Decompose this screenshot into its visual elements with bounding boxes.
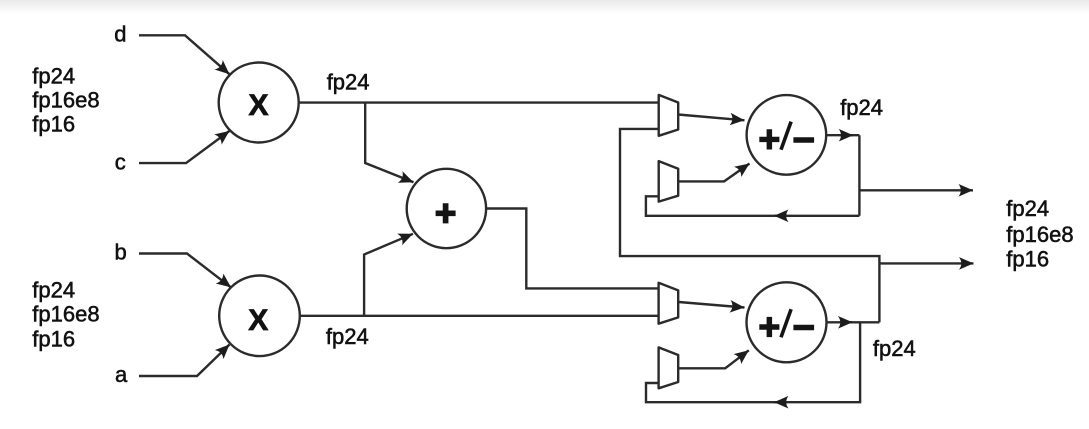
wire mux C output to addsub2: [679, 302, 745, 308]
wire output1 arrow: [859, 189, 973, 191]
svg-text:b: b: [115, 240, 127, 265]
wire input c: [139, 131, 230, 163]
wire feedback addsub1 to mux B: [646, 196, 860, 216]
svg-text:fp24: fp24: [326, 324, 369, 349]
wire addsub2 output: [827, 321, 880, 323]
svg-text:fp24: fp24: [32, 277, 75, 302]
wire input d: [139, 35, 230, 74]
svg-text:X: X: [248, 89, 268, 122]
addsub1 plus/minus symbol: [759, 129, 779, 149]
wire addsub2 result up to mux A second input: [620, 129, 879, 322]
multiplier M1 circle: [219, 63, 299, 143]
svg-text:fp24: fp24: [840, 95, 883, 120]
svg-text:fp16: fp16: [32, 327, 75, 352]
wire addsub1 output bus down: [858, 135, 860, 216]
wire multiplier1 output to mux A: [299, 101, 659, 103]
arrowhead feedback1 left: [774, 215, 788, 217]
svg-text:c: c: [115, 149, 126, 174]
svg-text:fp16: fp16: [32, 112, 75, 137]
mux A: [659, 95, 679, 136]
wire output2 fp16 arrow: [879, 262, 973, 264]
svg-text:fp16e8: fp16e8: [32, 301, 99, 326]
addsub2 plus/minus symbol: [759, 317, 779, 337]
wire mux B output to addsub1: [678, 164, 749, 182]
wire input b: [139, 254, 231, 288]
addsub2 circle: [747, 282, 827, 362]
addsub1 circle: [747, 95, 827, 175]
adder circle: [407, 169, 486, 248]
mux D: [659, 347, 679, 388]
svg-text:fp16: fp16: [1006, 247, 1049, 272]
svg-text:fp24: fp24: [1006, 196, 1049, 221]
wire input a: [139, 345, 230, 377]
svg-text:fp16e8: fp16e8: [32, 87, 99, 112]
svg-text:fp24: fp24: [873, 336, 916, 361]
wire mux D output to addsub2: [679, 350, 749, 368]
svg-text:a: a: [115, 362, 128, 387]
svg-text:fp16e8: fp16e8: [1006, 222, 1073, 247]
wire adder output to mux C: [486, 209, 658, 289]
mux C: [659, 283, 679, 324]
svg-text:X: X: [248, 304, 268, 337]
wire branch multiplier2 to adder: [364, 234, 413, 316]
adder plus symbol: [436, 203, 456, 223]
svg-text:fp24: fp24: [327, 70, 370, 95]
multiplier M2 circle: [219, 276, 300, 357]
arrowhead addsub1 output: [840, 134, 853, 136]
arrowhead feedback2 left: [774, 401, 788, 403]
arrowhead addsub2 output: [840, 321, 853, 323]
wire addsub1 output: [826, 134, 859, 136]
wire multiplier2 output to mux C: [301, 315, 659, 317]
wire mux A output to addsub1: [678, 115, 744, 121]
svg-text:fp24: fp24: [32, 63, 75, 88]
wire branch multiplier1 to adder: [365, 103, 413, 183]
svg-text:d: d: [114, 22, 126, 47]
mux B: [659, 161, 679, 202]
wire feedback addsub2 to mux D: [646, 322, 860, 402]
